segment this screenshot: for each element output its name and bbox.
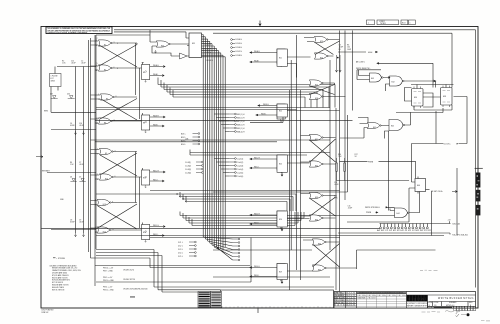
wire E4 outputs WDA	[150, 64, 165, 77]
nor gate E10	[99, 174, 113, 181]
svg-text:BJS, BJA: BJS, BJA	[453, 223, 461, 226]
faint pencil note	[422, 311, 441, 314]
svg-text:D17: D17	[50, 94, 53, 96]
svg-text:E45: E45	[391, 125, 394, 127]
svg-text:CL-B(4): CL-B(4)	[185, 172, 191, 174]
svg-text:E16: E16	[143, 232, 146, 234]
resistor pulldown arrows	[335, 55, 341, 72]
node WRITE STROBE H	[365, 207, 387, 215]
nor gate E31	[309, 134, 323, 141]
svg-text:B D02 H: B D02 H	[205, 52, 212, 54]
svg-text:E44: E44	[397, 213, 400, 215]
pencil dash	[461, 314, 466, 316]
wire latch link verticals	[136, 43, 140, 228]
latch cross wires E9/E10	[100, 152, 142, 178]
capacitor C4 label	[70, 123, 75, 127]
svg-text:.01UF: .01UF	[79, 125, 84, 127]
svg-text:1: 1	[96, 45, 97, 47]
svg-text:WRITE STROBE H: WRITE STROBE H	[365, 207, 380, 209]
input bus vertical wire C	[88, 40, 90, 252]
svg-text:E29: E29	[279, 272, 282, 274]
svg-text:E27: E27	[315, 85, 318, 87]
polarity arrow D	[82, 233, 84, 237]
svg-text:CL-B(1): CL-B(1)	[185, 162, 191, 164]
svg-text:BD9 (1) H: BD9 (1) H	[237, 128, 245, 130]
svg-text:ON DEC7473,6380786, 662/530: ON DEC7473,6380786, 662/530	[123, 288, 147, 290]
svg-text:E39 IS 74H74 N: E39 IS 74H74 N	[52, 289, 65, 291]
svg-text:⊥ STROBE: ⊥ STROBE	[56, 257, 66, 260]
latch cross wires E1/E2	[99, 43, 142, 68]
capacitor C2 label	[81, 61, 86, 65]
capacitor C11 label	[348, 206, 353, 210]
bus terminal row C	[214, 157, 243, 178]
wire E25 output	[281, 163, 310, 176]
wire mid long B	[91, 140, 331, 142]
pencil annotation	[420, 269, 438, 271]
wire E26 output	[281, 219, 310, 231]
svg-text:WDC H: WDC H	[153, 170, 159, 172]
nor gate E24	[314, 53, 328, 60]
diode D10	[67, 94, 75, 99]
svg-text:E38: E38	[443, 96, 446, 98]
nand gate E45	[389, 120, 405, 131]
wire E26 inputs	[250, 213, 277, 225]
wire bottom left loop B	[96, 253, 221, 290]
resistor R10 label	[334, 196, 338, 200]
wire bottom rail B	[96, 238, 340, 283]
wire lower long A	[42, 228, 380, 230]
flipflop E16	[142, 223, 150, 243]
svg-text:PIN 5 = +5V: PIN 5 = +5V	[103, 277, 113, 279]
wire E25 inputs WDC	[250, 157, 277, 169]
svg-text:E30: E30	[318, 244, 321, 246]
punch dot	[467, 313, 470, 316]
svg-text:PIN 14 = +5V: PIN 14 = +5V	[103, 268, 114, 270]
wire top power branch	[57, 66, 96, 68]
resistor R16 symbol	[336, 158, 338, 181]
svg-text:DRB 102: DRB 102	[42, 312, 49, 314]
svg-text:CL-A (2): CL-A (2)	[237, 161, 244, 164]
svg-text:.01UF: .01UF	[79, 164, 84, 166]
nand gate E44	[395, 208, 409, 218]
wire bottom long C	[213, 250, 436, 269]
T STROBE label	[53, 257, 66, 260]
capacitor C14 label	[334, 182, 339, 186]
wire bottom left loop A	[96, 250, 334, 288]
left margin arrow	[36, 155, 43, 158]
polarity arrow A	[74, 131, 76, 135]
stamp block parts list right	[211, 292, 222, 308]
wire E21 inputs WDA	[250, 50, 277, 63]
disclaimer note box top-left	[46, 27, 112, 35]
wire E46 feed	[409, 182, 415, 222]
wire E22 inputs	[256, 104, 277, 116]
svg-text:E23: E23	[320, 41, 323, 43]
nor gate E13	[97, 199, 111, 206]
wire E1 inputs	[91, 41, 99, 70]
bus distribution band 2	[96, 192, 296, 211]
flipflop E38	[441, 86, 453, 108]
svg-text:E26: E26	[279, 219, 282, 221]
svg-text:DC5 L: DC5 L	[178, 256, 183, 258]
svg-text:SCALE: SCALE	[428, 306, 434, 309]
capacitor C16 label	[79, 123, 84, 127]
resistor R6 label	[347, 45, 351, 51]
left terminal cluster 2	[181, 133, 200, 146]
svg-text:WDD H: WDD H	[153, 225, 159, 227]
junction dot	[337, 57, 339, 59]
node +5V strip	[430, 219, 461, 225]
svg-text:E13: E13	[103, 204, 106, 206]
handwriting mark bottom right	[445, 311, 460, 315]
bus right stub labels row A	[236, 39, 243, 57]
svg-text:CLOCK L: CLOCK L	[444, 144, 451, 146]
node AB SET CBL A	[426, 190, 458, 194]
svg-text:PIN 7 = GND: PIN 7 = GND	[103, 270, 114, 272]
polarity arrow B	[82, 131, 84, 135]
wire row separator mid	[150, 191, 348, 193]
flipflop E4	[142, 63, 150, 83]
svg-text:.01UF: .01UF	[71, 63, 76, 65]
input bus vertical wire A	[90, 38, 92, 258]
svg-text:ON DEC 8271S: ON DEC 8271S	[123, 279, 136, 281]
svg-text:B D06 H: B D06 H	[236, 47, 243, 49]
capacitor C15 label	[71, 61, 76, 65]
flipflop E26	[277, 211, 287, 229]
diode D17	[50, 94, 58, 99]
title block	[334, 292, 476, 311]
wire mid band upper	[190, 150, 330, 156]
resistor R4 label	[70, 162, 74, 166]
nor gate E6	[98, 118, 112, 125]
wire gate E43 inputs	[357, 70, 370, 80]
sheet border frame	[41, 27, 478, 309]
wire RESTART input	[42, 170, 96, 173]
svg-text:DEC EIA: DEC EIA	[388, 294, 397, 297]
svg-text:1: 1	[410, 23, 411, 25]
svg-text:D664 IN645: D664 IN645	[358, 298, 366, 300]
bus terminal row B	[214, 113, 245, 133]
svg-text:DC2 L: DC2 L	[178, 245, 183, 247]
svg-text:E33: E33	[315, 197, 318, 199]
svg-text:E4: E4	[143, 72, 145, 74]
node CLOCK L	[412, 144, 459, 146]
bus distribution band	[158, 78, 335, 108]
svg-text:E5: E5	[106, 99, 108, 101]
wire E12 outputs WDC	[150, 170, 165, 182]
right vertical wire net J	[352, 31, 354, 111]
nor gate E33	[309, 192, 323, 199]
svg-text:2: 2	[97, 38, 98, 40]
binder dark block 1	[476, 173, 481, 188]
wire bottom inputs E29	[91, 258, 251, 268]
latch cross wires E30/E37	[303, 240, 357, 268]
scale row and sheet grid	[428, 306, 475, 311]
svg-text:E36: E36	[414, 97, 417, 99]
conversion chart	[357, 292, 407, 308]
svg-text:PIN 10 = GND: PIN 10 = GND	[103, 280, 115, 282]
svg-text:2N4258: 2N4258	[368, 298, 376, 300]
nor gate E23	[314, 36, 328, 43]
svg-text:E25: E25	[279, 164, 282, 166]
wire E29 inputs WDE	[250, 266, 277, 278]
svg-text:d i g i t a l: d i g i t a l	[408, 297, 426, 301]
right vertical wire net H	[344, 31, 346, 201]
wire E16 outputs WDD	[150, 225, 165, 237]
svg-text:E40: E40	[161, 46, 164, 48]
resistor R17 symbol	[344, 158, 346, 181]
svg-text:B D08 H: B D08 H	[236, 55, 243, 57]
svg-text:E32: E32	[315, 166, 318, 168]
svg-text:DC3 L: DC3 L	[178, 249, 183, 251]
svg-text:CL-A (3): CL-A (3)	[237, 164, 244, 167]
svg-text:PIN 11 = GND: PIN 11 = GND	[103, 289, 114, 291]
bus right stubs row A	[231, 39, 235, 57]
svg-text:COPYRIGHT 1972 BY DIGITAL EQUI: COPYRIGHT 1972 BY DIGITAL EQUIPMENT CORP…	[47, 31, 88, 34]
right vertical wire net I	[347, 115, 349, 192]
wire clock drop	[412, 111, 437, 182]
wire E44 output	[409, 192, 419, 213]
digital logo	[407, 295, 428, 302]
svg-text:WDB H: WDB H	[153, 115, 159, 117]
stamp block parts list left	[198, 292, 211, 308]
right vertical wire net E	[329, 60, 331, 250]
svg-text:MAYNARD, MASSACHUSETTS: MAYNARD, MASSACHUSETTS	[407, 304, 428, 307]
wire E46 bottom route	[347, 221, 409, 223]
svg-text:NUMBER: NUMBER	[449, 302, 457, 304]
svg-text:DEC EIA: DEC EIA	[398, 294, 407, 297]
revision strip above border	[367, 20, 416, 25]
svg-text:E37: E37	[318, 270, 321, 272]
flipflop E22	[277, 104, 287, 122]
flipflop E46	[415, 177, 426, 194]
flipflop E29	[277, 264, 287, 282]
bus pin labels	[205, 45, 214, 62]
svg-text:B D00 H: B D00 H	[205, 45, 212, 47]
fold arrow mark top center	[259, 21, 261, 26]
GND rail left	[83, 67, 85, 234]
wire FF top rail	[411, 85, 454, 89]
wire E44 inputs	[348, 207, 395, 215]
latch cross wires E13/E14	[98, 203, 142, 231]
svg-text:PIN 4 = +5V: PIN 4 = +5V	[103, 287, 113, 289]
svg-text:E1: E1	[104, 45, 106, 47]
svg-text:E43: E43	[371, 78, 374, 80]
node ground strip	[338, 233, 468, 236]
svg-text:PWRB: PWRB	[366, 212, 372, 214]
nor gate E32	[309, 161, 323, 168]
wire right loop to title	[431, 192, 433, 236]
svg-text:CL-A (5): CL-A (5)	[237, 171, 244, 174]
wire E29 output	[281, 271, 313, 283]
wire bottom rail A	[96, 235, 444, 237]
nor gate E34	[309, 215, 323, 222]
svg-text:WDB L: WDB L	[153, 124, 158, 126]
svg-text:BDA (1) H: BDA (1) H	[237, 130, 245, 133]
wire bottom left loop C	[96, 256, 221, 293]
svg-text:CL-B(2): CL-B(2)	[185, 165, 191, 167]
terminal strip TP	[377, 224, 431, 232]
bus distribution band 3	[180, 212, 348, 226]
svg-text:.01UF: .01UF	[81, 63, 86, 65]
svg-text:ON DEC74-74: ON DEC74-74	[123, 269, 134, 271]
svg-text:BD5 (1) H: BD5 (1) H	[237, 114, 245, 116]
svg-text:CL-A (4): CL-A (4)	[237, 168, 244, 171]
node PWRB	[340, 161, 416, 178]
gate pin numbers left column	[95, 40, 117, 234]
svg-text:10-19-71: 10-19-71	[346, 305, 355, 307]
svg-text:CL-A (1): CL-A (1)	[237, 157, 244, 160]
svg-text:E6: E6	[104, 123, 106, 125]
bus bottom fan terminals	[203, 237, 240, 261]
nor gate E2	[97, 63, 119, 71]
wire bottom long D	[213, 276, 330, 278]
svg-text:D10: D10	[67, 94, 70, 96]
binder dark block 2	[476, 190, 481, 202]
wire E45 to E44 vertical	[388, 131, 390, 211]
nor gate E41	[367, 122, 381, 129]
latch cross wires E33/E34	[301, 194, 336, 219]
svg-text:BD2 L: BD2 L	[181, 137, 186, 139]
svg-text:M7N21: M7N21	[381, 23, 387, 25]
notes text block 2	[103, 268, 147, 292]
nor gate E30	[312, 239, 326, 246]
svg-text:B D01 H: B D01 H	[205, 48, 212, 50]
svg-text:E28: E28	[315, 98, 318, 100]
flipflop E8	[142, 113, 150, 133]
center vertical wire net B	[290, 60, 292, 250]
svg-text:.01UF: .01UF	[348, 208, 353, 210]
svg-text:DC1 L: DC1 L	[178, 242, 183, 244]
svg-text:R5: R5	[339, 49, 341, 51]
ic E35 register	[187, 33, 202, 58]
diode D5	[79, 177, 86, 182]
resistor R17 label	[355, 154, 358, 158]
wire row separator upper	[96, 108, 330, 110]
nor gate E5	[100, 94, 114, 101]
company name row	[407, 302, 428, 308]
wire lower power branch	[51, 229, 96, 231]
svg-text:E34: E34	[315, 220, 318, 222]
node AB CLKM L	[356, 61, 433, 88]
svg-text:E22: E22	[279, 111, 282, 113]
svg-text:CL-B(3): CL-B(3)	[185, 169, 191, 171]
svg-text:BD7 (1) H: BD7 (1) H	[237, 121, 245, 123]
svg-text:CL-A (6): CL-A (6)	[237, 175, 244, 178]
+5V rail left	[75, 67, 77, 234]
nand gate E43	[370, 73, 384, 82]
svg-text:B D04 H: B D04 H	[236, 39, 243, 41]
wire E41 to E45	[340, 112, 411, 138]
svg-text:BD8 (1) H: BD8 (1) H	[237, 124, 245, 126]
svg-text:.01UF: .01UF	[334, 184, 339, 186]
band 2 arrowheads	[176, 193, 187, 202]
svg-text:BD1 L: BD1 L	[181, 133, 186, 135]
binder dark block 3	[476, 205, 481, 216]
check mark	[456, 314, 460, 317]
right vertical wire net G	[339, 31, 341, 292]
left terminal cluster 3	[185, 161, 203, 174]
wire mid power branch	[51, 129, 96, 131]
svg-text:E46: E46	[417, 185, 420, 187]
size code number row	[428, 302, 476, 309]
nor gate E1	[97, 38, 119, 46]
svg-text:.01UF: .01UF	[79, 222, 84, 224]
flipflop E25	[277, 155, 287, 173]
svg-text:RESTART: RESTART	[42, 170, 50, 173]
svg-text:E42: E42	[392, 81, 395, 83]
notes text block	[50, 264, 82, 291]
wire pulse box drop	[51, 67, 58, 113]
svg-text:5: 5	[97, 63, 98, 65]
capacitor C3 label	[339, 45, 344, 51]
wire REM input	[44, 111, 96, 113]
flipflop E12	[142, 168, 150, 188]
wire E36/E38 coupling	[396, 88, 467, 144]
nor gate E37	[312, 265, 326, 272]
input bus vertical wire B	[94, 35, 96, 286]
svg-text:E2: E2	[104, 70, 106, 72]
svg-text:E24: E24	[320, 58, 323, 60]
faint corner marks	[481, 320, 490, 322]
wire E13 inputs	[91, 201, 97, 233]
svg-text:D4: D4	[70, 177, 72, 179]
nor gate E28	[309, 93, 323, 100]
svg-text:D5: D5	[79, 177, 81, 179]
nand gate E42	[390, 76, 405, 86]
wire mid long A	[95, 119, 353, 121]
left terminal cluster 5	[178, 241, 196, 258]
svg-text:E35: E35	[192, 43, 195, 45]
svg-text:BD4 L: BD4 L	[181, 144, 186, 146]
polarity arrow C	[74, 233, 76, 237]
latch cross wires E31/E32	[301, 136, 336, 165]
nor gate E27	[309, 80, 323, 87]
svg-text:AB CLKM L: AB CLKM L	[356, 61, 365, 64]
wire top rail inner	[213, 33, 452, 87]
wire left frame drop A	[96, 35, 150, 249]
latch cross wires E23/E24	[304, 38, 340, 57]
personnel table	[334, 292, 357, 309]
svg-text:BD6 (1) H: BD6 (1) H	[237, 117, 245, 119]
latch cross wires E27/E28	[310, 83, 346, 97]
center vertical wire net D	[300, 90, 302, 280]
center vertical wire net C	[296, 35, 298, 270]
capacitor C9 label	[79, 220, 84, 224]
svg-text:E14: E14	[103, 232, 106, 234]
wire E22 output	[250, 111, 340, 123]
svg-text:AB SET CBL A: AB SET CBL A	[431, 190, 443, 193]
svg-text:DC4 L: DC4 L	[178, 252, 183, 254]
svg-text:TCA, CPS, BCA, BJ1: TCA, CPS, BCA, BJ1	[452, 233, 468, 236]
diode D4	[70, 177, 77, 182]
binder mark tick	[475, 167, 483, 169]
svg-text:A2 B2 C2 D2 E2 F2 H2 J2 K2 L2: A2 B2 C2 D2 E2 F2 H2 J2 K2 L2 M2 N2 P2 R…	[377, 229, 431, 232]
svg-text:WDC L: WDC L	[153, 179, 158, 181]
svg-text:E10: E10	[105, 179, 108, 181]
flipflop E21	[277, 49, 287, 67]
svg-text:REM: REM	[44, 111, 48, 113]
ic E35 output fan to bus	[202, 35, 226, 250]
wire top rail outer	[114, 30, 476, 288]
latch cross wires E5/E6	[100, 97, 142, 121]
one-shot E17 box (1 PULSE)	[50, 74, 62, 87]
wire resistor rail	[337, 180, 410, 182]
resistor R2 label	[62, 61, 66, 65]
svg-text:6.8UF: 6.8UF	[70, 222, 75, 224]
buffer gate E39	[180, 53, 188, 59]
wire E8 outputs WDB	[150, 115, 165, 127]
